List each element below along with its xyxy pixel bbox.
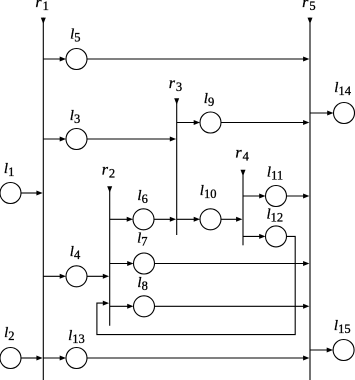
svg-text:r2: r2 (102, 162, 115, 181)
wire l6 to r3 (154, 217, 176, 222)
svg-text:l3: l3 (70, 108, 80, 126)
rail r5 (308, 18, 313, 380)
node l9 (200, 112, 221, 133)
node l12 (266, 226, 287, 247)
node l8 (134, 296, 155, 317)
wire l1 to r1 (21, 191, 43, 196)
wire l7 to r5 (155, 261, 310, 266)
node l13 (66, 348, 87, 369)
node l7 (134, 253, 155, 274)
wire r2 to l6 (110, 217, 133, 222)
wire r1 to l13 (43, 356, 66, 361)
wire l9 to r5 (221, 120, 309, 125)
wire l3 to r3 (87, 137, 176, 142)
svg-text:r1: r1 (35, 0, 48, 13)
svg-text:l12: l12 (267, 207, 284, 225)
svg-text:l2: l2 (4, 325, 14, 343)
svg-text:l9: l9 (204, 91, 214, 109)
wire l11 to r5 (287, 194, 310, 199)
node l10 (200, 209, 221, 230)
node l5 (66, 49, 87, 70)
wire l10 to r4 (221, 217, 242, 222)
wire r3 to l9 (177, 120, 200, 125)
wire r4 to l12 (243, 234, 266, 239)
svg-text:l5: l5 (70, 27, 80, 45)
node l11 (266, 186, 287, 207)
node l4 (66, 266, 87, 287)
wire r1 to l3 (43, 137, 66, 142)
wire r2 to l7 (110, 261, 134, 266)
svg-text:l1: l1 (4, 161, 14, 179)
wire l5 to r5 (87, 57, 309, 62)
svg-text:r4: r4 (235, 145, 249, 164)
svg-text:l11: l11 (267, 165, 283, 183)
svg-text:l7: l7 (137, 231, 147, 249)
svg-text:r3: r3 (169, 75, 182, 94)
wire r1 to l4 (43, 274, 66, 279)
node l3 (66, 129, 87, 150)
node l14 (334, 103, 355, 124)
wire l2 to r1 (21, 356, 43, 361)
wire r5 to l14 (310, 111, 334, 116)
wire l4 to r2 (87, 274, 109, 279)
rail r2 (107, 186, 112, 325)
wire l8 to r5 (155, 304, 310, 309)
rail r1 (41, 18, 46, 380)
wire r3 to l10 (177, 217, 200, 222)
svg-text:l14: l14 (334, 80, 351, 98)
svg-text:l13: l13 (68, 328, 85, 346)
node l15 (333, 340, 354, 361)
svg-text:l4: l4 (70, 244, 81, 262)
node l2 (0, 348, 21, 369)
svg-text:r5: r5 (302, 0, 315, 13)
node l1 (0, 183, 21, 204)
wire r2 to l8 (110, 304, 134, 309)
wire r5 to l15 (310, 348, 333, 353)
svg-text:l10: l10 (200, 183, 217, 201)
svg-text:l8: l8 (137, 275, 147, 293)
wire l13 to r5 (87, 356, 309, 361)
rail r3 (174, 98, 179, 235)
svg-text:l6: l6 (137, 188, 147, 206)
wire l12 feedback to r2 (97, 236, 295, 334)
wire r1 to l5 (43, 57, 66, 62)
node l6 (133, 209, 154, 230)
wire r4 to l11 (243, 194, 266, 199)
rail r4 (241, 170, 246, 246)
svg-text:l15: l15 (334, 318, 351, 336)
